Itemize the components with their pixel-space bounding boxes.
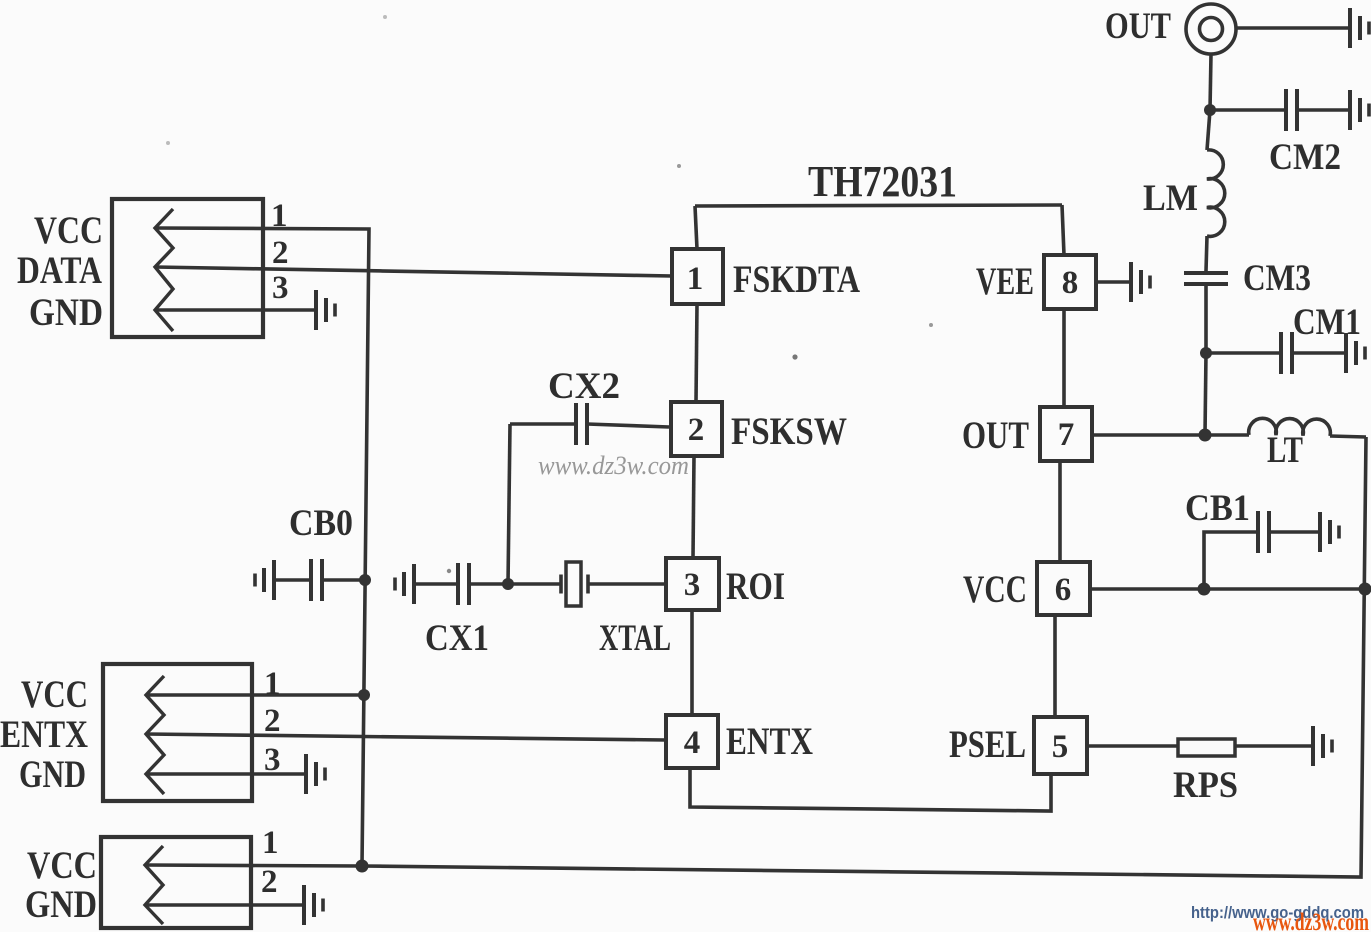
svg-text:GND: GND: [19, 753, 86, 796]
svg-text:TH72031: TH72031: [808, 157, 957, 206]
svg-text:VCC: VCC: [34, 209, 103, 252]
svg-text:ROI: ROI: [726, 565, 785, 608]
svg-text:CX1: CX1: [425, 618, 489, 659]
svg-text:PSEL: PSEL: [949, 723, 1026, 766]
svg-text:ENTX: ENTX: [726, 720, 813, 763]
svg-text:CX2: CX2: [548, 366, 620, 407]
svg-text:5: 5: [1052, 729, 1069, 765]
svg-text:CM1: CM1: [1293, 302, 1361, 343]
svg-text:VEE: VEE: [976, 260, 1034, 303]
svg-text:LT: LT: [1267, 430, 1303, 471]
svg-text:6: 6: [1055, 572, 1072, 608]
svg-text:1: 1: [262, 825, 279, 861]
svg-text:1: 1: [687, 261, 704, 297]
svg-text:4: 4: [684, 725, 701, 761]
svg-text:DATA: DATA: [17, 249, 102, 292]
svg-text:3: 3: [264, 742, 281, 778]
svg-text:OUT: OUT: [962, 414, 1029, 457]
svg-text:3: 3: [684, 567, 701, 603]
svg-text:LM: LM: [1143, 178, 1198, 219]
svg-text:8: 8: [1062, 265, 1079, 301]
svg-text:VCC: VCC: [27, 844, 97, 887]
svg-text:CM3: CM3: [1243, 258, 1311, 299]
svg-text:CM2: CM2: [1269, 137, 1341, 178]
svg-text:GND: GND: [25, 883, 97, 926]
svg-text:2: 2: [261, 864, 278, 900]
svg-text:1: 1: [271, 198, 288, 234]
svg-text:RPS: RPS: [1173, 765, 1238, 806]
svg-text:ENTX: ENTX: [0, 713, 88, 756]
svg-text:www.dz3w.com: www.dz3w.com: [538, 451, 689, 480]
svg-text:XTAL: XTAL: [599, 618, 671, 659]
svg-text:1: 1: [264, 666, 281, 702]
svg-text:FSKSW: FSKSW: [731, 410, 847, 453]
svg-text:www.dz3w.com: www.dz3w.com: [1253, 909, 1369, 932]
svg-text:2: 2: [264, 703, 281, 739]
svg-text:VCC: VCC: [21, 673, 88, 716]
svg-text:3: 3: [272, 270, 289, 306]
svg-text:CB0: CB0: [289, 503, 353, 544]
svg-text:2: 2: [688, 412, 705, 448]
svg-text:OUT: OUT: [1105, 6, 1171, 47]
svg-text:7: 7: [1058, 417, 1075, 453]
svg-text:CB1: CB1: [1185, 488, 1250, 529]
svg-text:GND: GND: [29, 291, 103, 334]
svg-text:VCC: VCC: [963, 568, 1027, 611]
svg-text:2: 2: [272, 235, 289, 271]
svg-text:FSKDTA: FSKDTA: [733, 258, 860, 301]
